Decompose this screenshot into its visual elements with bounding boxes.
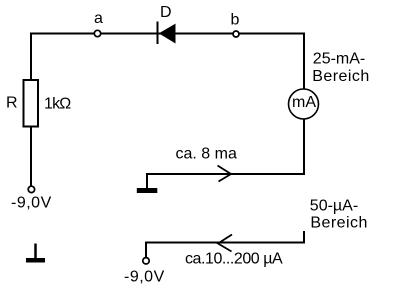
ground (bottom left) stem — [34, 244, 37, 259]
wire below resistor — [30, 128, 32, 186]
wire right vertical from top corner to ammeter — [303, 33, 305, 90]
svg-text:Bereich: Bereich — [312, 68, 369, 85]
svg-text:mA: mA — [292, 94, 316, 111]
svg-text:50-µA-: 50-µA- — [310, 198, 358, 215]
svg-text:1kΩ: 1kΩ — [44, 95, 71, 112]
svg-text:D: D — [160, 4, 172, 21]
wire right vertical from ammeter down to mid wire — [303, 120, 305, 176]
ground (middle) stem — [146, 174, 148, 189]
svg-text:ca. 8 ma: ca. 8 ma — [176, 146, 237, 163]
node b — [233, 31, 239, 37]
svg-text:-9,0V: -9,0V — [11, 195, 52, 212]
terminal circle -9,0V bottom — [143, 258, 149, 264]
resistor R body — [24, 80, 39, 127]
wire top horizontal from left branch to right branch — [30, 33, 304, 35]
wire mid horizontal — [146, 173, 305, 175]
wire bottom right stub — [303, 231, 305, 244]
svg-text:-9,0V: -9,0V — [124, 269, 165, 286]
diode D cathode bar — [157, 22, 159, 45]
arrow current direction left on bottom wire — [218, 235, 232, 252]
svg-text:a: a — [94, 10, 103, 27]
svg-text:ca.10...200 µA: ca.10...200 µA — [185, 250, 283, 267]
diode D triangle (points left) — [159, 24, 176, 44]
svg-text:25-mA-: 25-mA- — [313, 50, 365, 67]
ground (middle) bar — [137, 188, 158, 193]
terminal circle -9,0V left — [28, 186, 34, 192]
svg-text:R: R — [6, 95, 18, 112]
arrow current direction right on mid wire — [218, 166, 232, 182]
node a — [94, 30, 100, 36]
wire bottom horizontal — [146, 242, 305, 244]
svg-text:Bereich: Bereich — [310, 215, 367, 232]
wire bottom left stub — [145, 242, 147, 258]
svg-text:b: b — [231, 12, 240, 29]
wire left vertical down to resistor — [30, 33, 32, 81]
ground (bottom left) bar — [26, 258, 45, 263]
ammeter mA — [289, 89, 319, 119]
